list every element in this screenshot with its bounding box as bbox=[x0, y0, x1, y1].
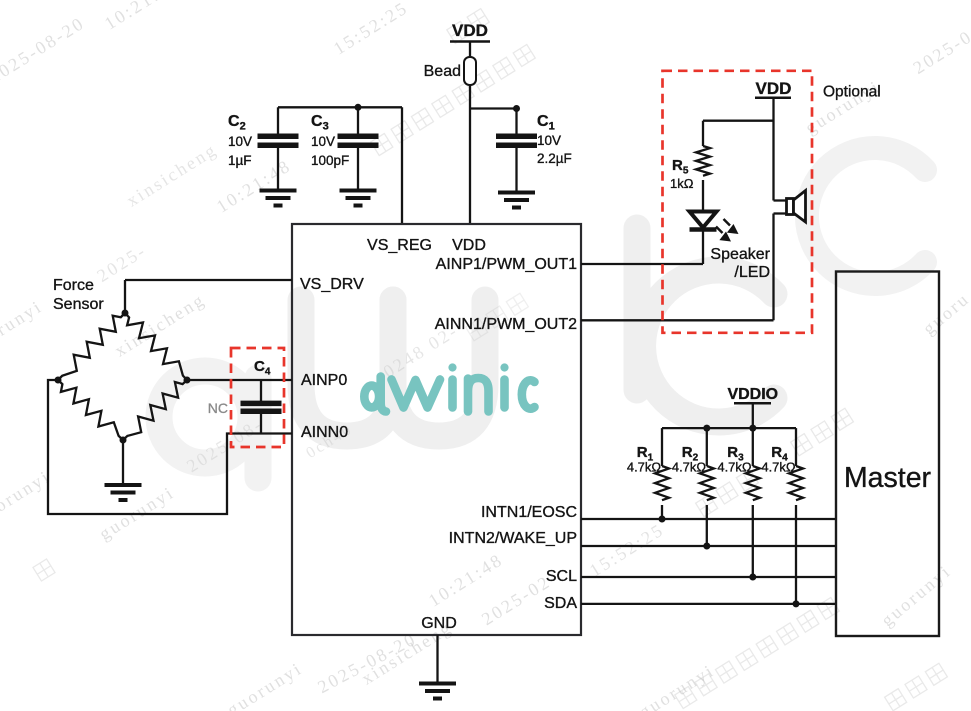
svg-text:Force: Force bbox=[53, 277, 94, 294]
svg-text:/LED: /LED bbox=[734, 264, 770, 281]
svg-text:4.7kΩ: 4.7kΩ bbox=[627, 460, 662, 475]
svg-text:SCL: SCL bbox=[546, 568, 577, 585]
svg-text:AINP0: AINP0 bbox=[301, 372, 347, 389]
svg-text:guoru: guoru bbox=[919, 288, 971, 338]
svg-text:Sensor: Sensor bbox=[53, 296, 104, 313]
svg-text:VDD: VDD bbox=[452, 237, 486, 254]
svg-text:10:21:48: 10:21:48 bbox=[101, 0, 183, 34]
svg-text:C1: C1 bbox=[537, 113, 555, 133]
svg-text:15:52:25: 15:52:25 bbox=[330, 0, 412, 59]
svg-text:AINN0: AINN0 bbox=[301, 424, 348, 441]
svg-text:VS_REG: VS_REG bbox=[367, 237, 432, 254]
svg-text:VDD: VDD bbox=[756, 79, 792, 98]
svg-text:AINP1/PWM_OUT1: AINP1/PWM_OUT1 bbox=[436, 256, 577, 273]
svg-text:NC: NC bbox=[208, 400, 228, 416]
svg-text:C3: C3 bbox=[311, 113, 329, 133]
svg-text:guorunyi: guorunyi bbox=[0, 466, 54, 528]
svg-text:1µF: 1µF bbox=[228, 153, 252, 168]
svg-text:SDA: SDA bbox=[544, 595, 577, 612]
svg-text:1kΩ: 1kΩ bbox=[670, 176, 694, 191]
svg-text:C2: C2 bbox=[228, 113, 246, 133]
svg-text:2025-0: 2025-0 bbox=[910, 26, 971, 78]
svg-text:4.7kΩ: 4.7kΩ bbox=[717, 460, 752, 475]
svg-text:guorunyi: guorunyi bbox=[877, 560, 955, 630]
svg-text:4.7kΩ: 4.7kΩ bbox=[672, 460, 707, 475]
svg-text:R5: R5 bbox=[672, 157, 689, 177]
svg-text:10V: 10V bbox=[537, 133, 561, 148]
svg-text:2025-08-20: 2025-08-20 bbox=[0, 13, 88, 88]
svg-text:Optional: Optional bbox=[823, 84, 881, 101]
svg-text:Bead: Bead bbox=[424, 63, 461, 80]
svg-text:C4: C4 bbox=[254, 358, 271, 378]
svg-text:100pF: 100pF bbox=[311, 153, 349, 168]
svg-text:15:52:25: 15:52:25 bbox=[586, 519, 668, 580]
svg-text:guorunyi: guorunyi bbox=[223, 658, 306, 711]
svg-text:2.2µF: 2.2µF bbox=[537, 151, 572, 166]
svg-text:Master: Master bbox=[844, 462, 932, 494]
svg-text:INTN1/EOSC: INTN1/EOSC bbox=[481, 504, 577, 521]
svg-text:Speaker: Speaker bbox=[710, 246, 770, 263]
svg-text:guorunyi: guorunyi bbox=[0, 296, 46, 358]
svg-text:10V: 10V bbox=[311, 134, 335, 149]
svg-text:AINN1/PWM_OUT2: AINN1/PWM_OUT2 bbox=[435, 316, 577, 333]
svg-text:VDDIO: VDDIO bbox=[727, 386, 778, 403]
svg-text:xinsicheng: xinsicheng bbox=[123, 139, 221, 211]
svg-text:4.7kΩ: 4.7kΩ bbox=[761, 460, 796, 475]
svg-text:GND: GND bbox=[421, 615, 457, 632]
svg-text:VDD: VDD bbox=[452, 21, 488, 40]
svg-text:INTN2/WAKE_UP: INTN2/WAKE_UP bbox=[449, 530, 577, 547]
svg-text:VS_DRV: VS_DRV bbox=[300, 276, 364, 293]
svg-text:10V: 10V bbox=[228, 134, 252, 149]
